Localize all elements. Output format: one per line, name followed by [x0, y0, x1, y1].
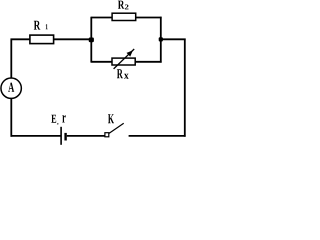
resistor R1	[30, 35, 54, 44]
junction node left	[89, 38, 94, 43]
label R2	[118, 1, 129, 10]
wire left vertical lower	[10, 99, 12, 137]
wire R2 branch right	[136, 17, 162, 19]
label K	[108, 114, 114, 123]
rheostat Rx	[112, 49, 135, 69]
wire parallel-section left vertical	[90, 17, 92, 63]
label R1	[34, 21, 48, 30]
wire bottom-left	[11, 135, 61, 137]
label E	[51, 115, 58, 125]
wire right vertical	[184, 39, 186, 137]
resistor R2	[112, 13, 136, 20]
wire top-right horizontal	[161, 38, 186, 40]
wire left vertical upper	[10, 39, 12, 78]
junction node right	[159, 37, 163, 41]
wire Rx branch left	[91, 61, 112, 63]
battery E,r	[61, 127, 66, 145]
wire parallel-section right vertical	[160, 17, 162, 63]
switch K	[105, 123, 124, 137]
wire top-middle horizontal	[53, 38, 91, 40]
wire R2 branch left	[91, 17, 112, 19]
wire bottom-middle	[67, 135, 105, 137]
wire top-left horizontal	[11, 38, 31, 40]
ammeter A	[1, 78, 21, 98]
wire Rx branch right	[135, 61, 161, 63]
label r	[62, 115, 65, 122]
wire bottom-right horizontal	[129, 135, 186, 137]
label Rx	[117, 69, 129, 79]
